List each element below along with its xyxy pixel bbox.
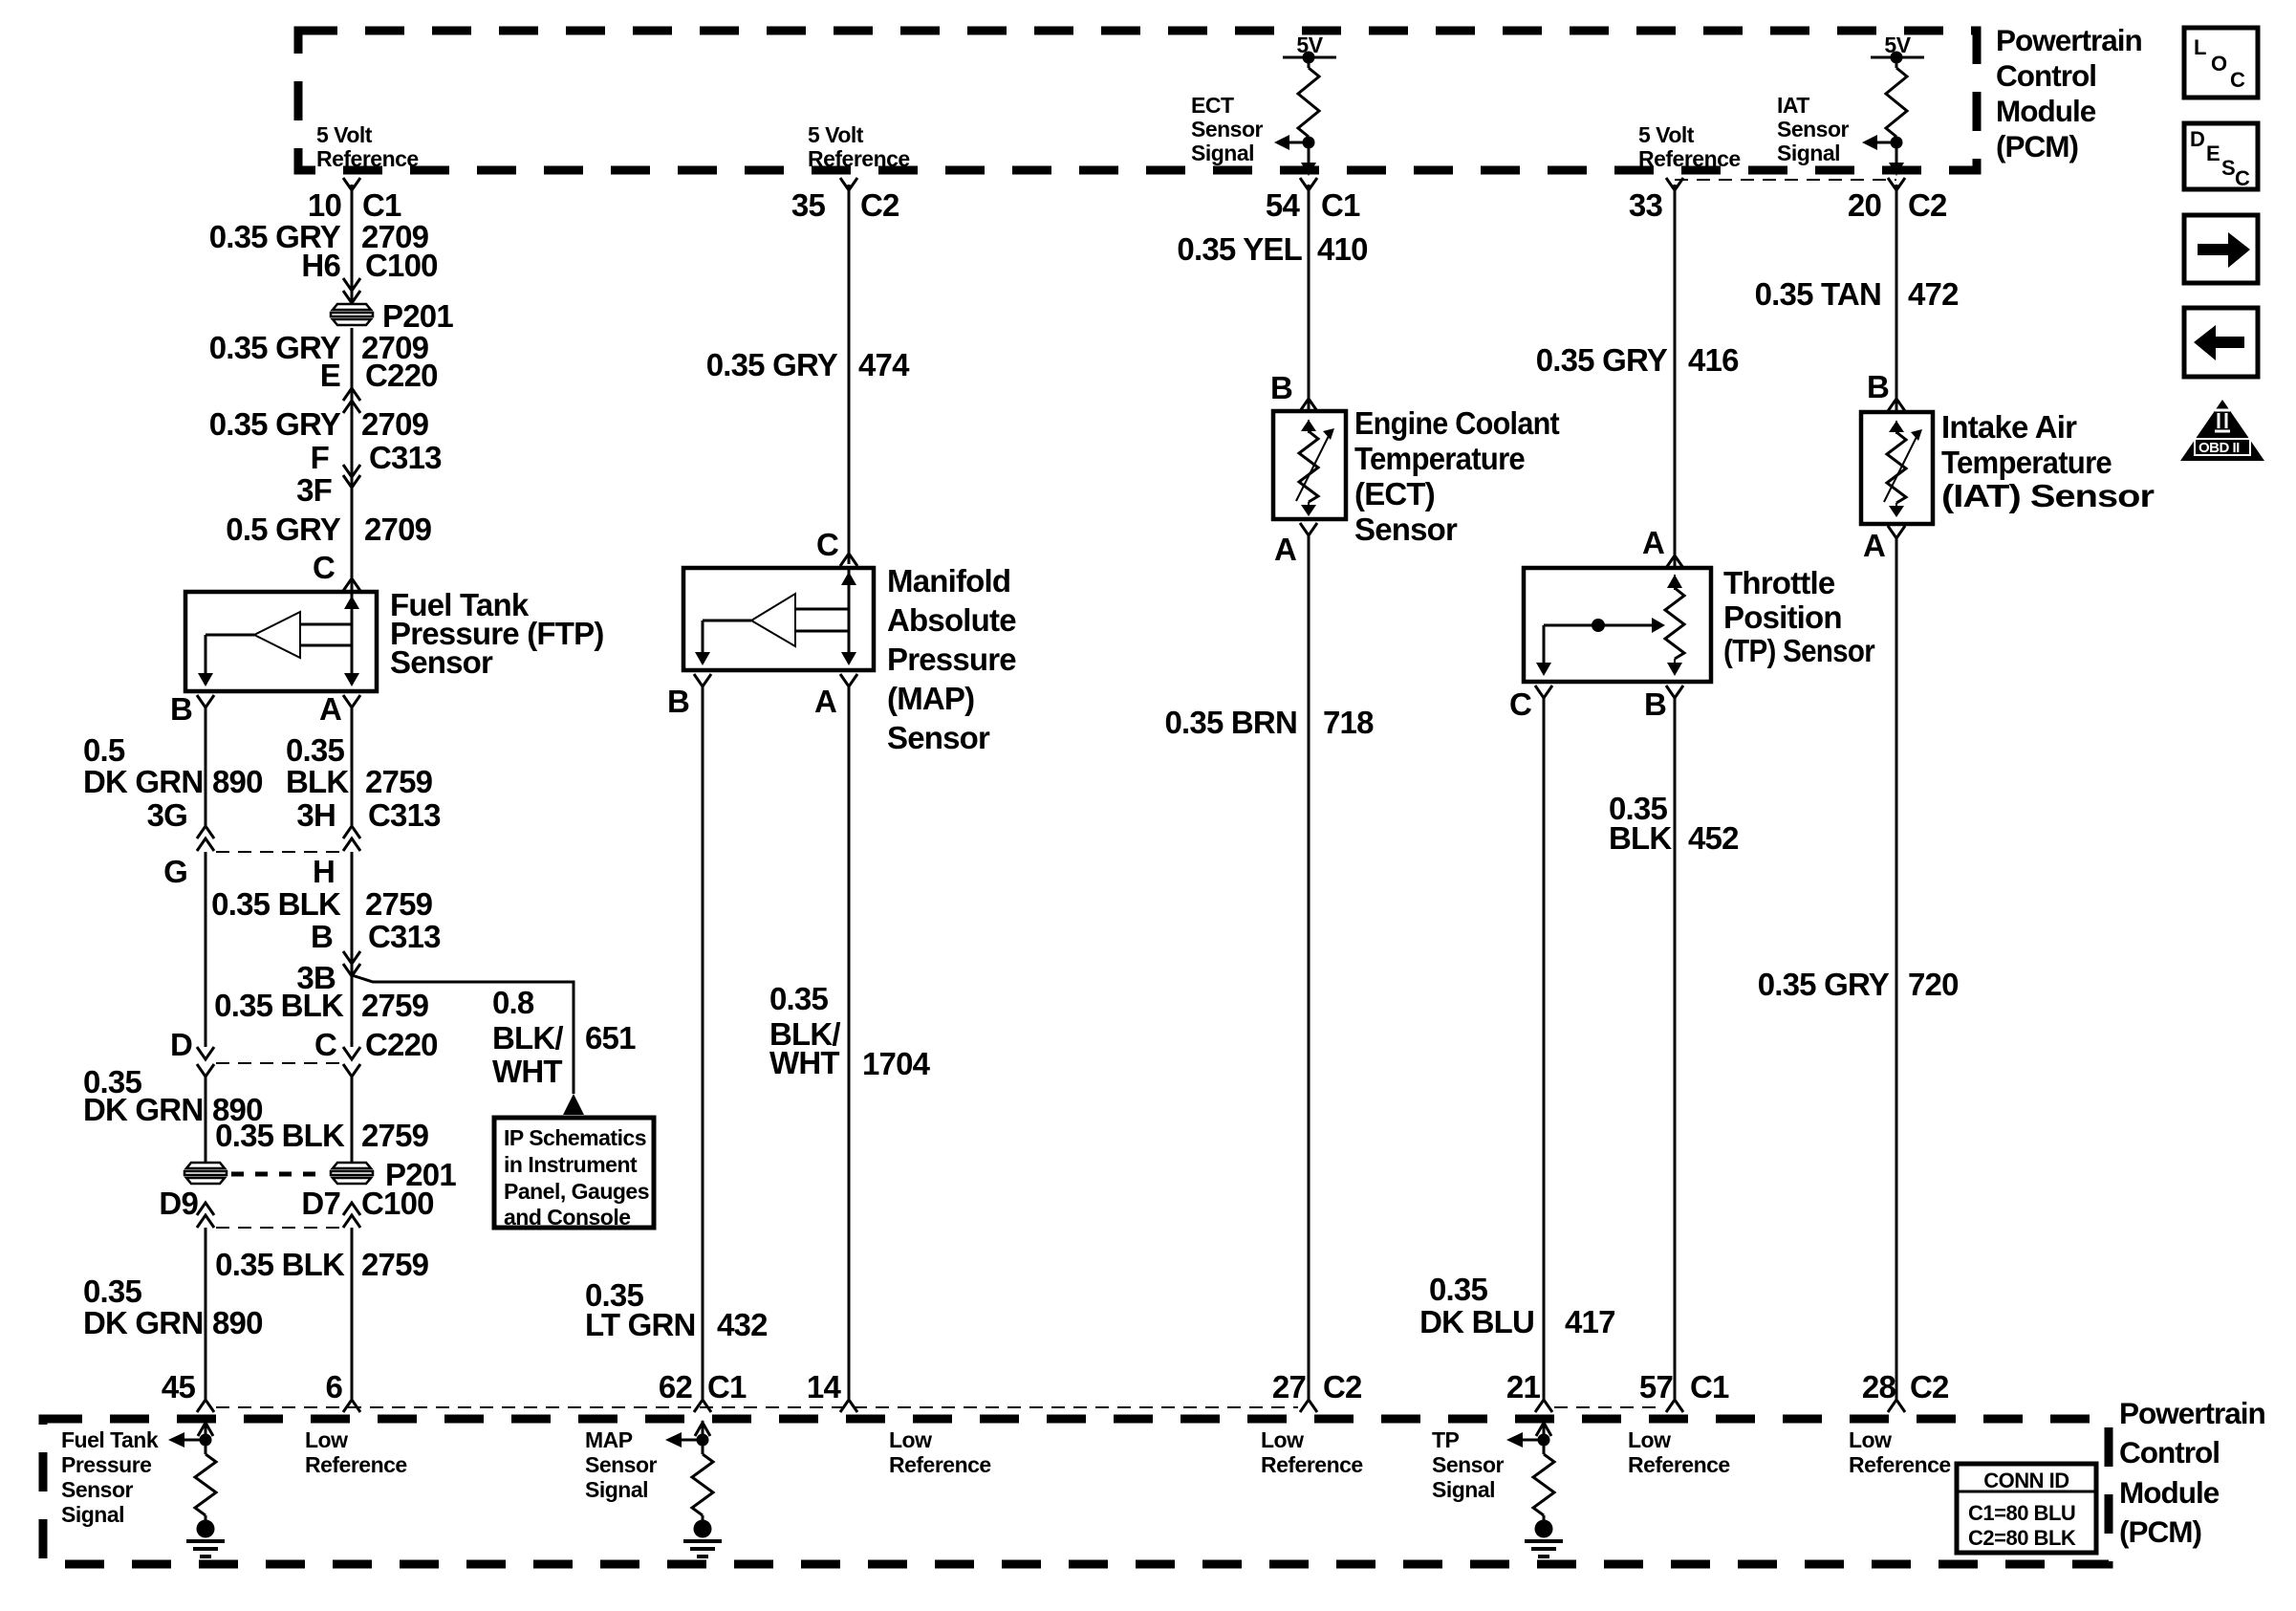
label: 0.35 LT GRN 432: [585, 1277, 768, 1342]
potentiometer symbol inside TP sensor: [1665, 575, 1684, 676]
label: G / H: [163, 854, 335, 889]
svg-text:2709: 2709: [361, 406, 429, 442]
wire: MAP A 0.35 BLK/WHT 1704 to PCM pin 14: [848, 686, 851, 1401]
reference box: IP Schematics in Instrument Panel, Gauges and Console: [494, 1118, 654, 1230]
svg-text:C1: C1: [1690, 1369, 1729, 1404]
label: 0.35 GRY / 720: [1758, 967, 1959, 1002]
label: MAP Sensor Signal: [585, 1427, 658, 1502]
connector P201 (lower, on B wire): [184, 1163, 227, 1184]
svg-text:Module: Module: [1996, 94, 2096, 128]
ground: TP signal termination: [1525, 1520, 1563, 1557]
svg-text:C1=80 BLU: C1=80 BLU: [1968, 1501, 2075, 1525]
svg-text:3F: 3F: [296, 472, 332, 508]
PCM input: MAP Sensor Signal termination: [665, 1421, 713, 1522]
svg-text:Reference: Reference: [1628, 1452, 1730, 1477]
label: B / C313: [311, 919, 441, 954]
label: Intake Air Temperature (IAT) Sensor: [1941, 409, 2155, 513]
connector chevron at TP pin A: [1666, 555, 1683, 568]
icon: OBD II triangle: [2180, 400, 2264, 461]
svg-text:5 Volt: 5 Volt: [808, 122, 864, 147]
svg-text:C2: C2: [1323, 1369, 1362, 1404]
connector chevrons C313 on both wires: [197, 826, 360, 851]
svg-text:C2=80 BLK: C2=80 BLK: [1968, 1526, 2076, 1550]
internal wire with down arrow to pin B: [695, 620, 710, 665]
label: Throttle Position (TP) Sensor: [1723, 565, 1875, 668]
icon: forward arrow box: [2184, 215, 2258, 283]
svg-text:Pressure: Pressure: [61, 1452, 151, 1477]
label: 0.35 DK BLU 417: [1419, 1272, 1615, 1339]
connector chevrons at 3B splice: [343, 951, 360, 976]
label: 0.35 BLK / 452: [1609, 791, 1739, 856]
svg-text:0.5: 0.5: [83, 732, 125, 768]
svg-text:C1: C1: [707, 1369, 747, 1404]
branch wire: 0.8 BLK/WHT 651 from 3B splice to IP schematics: [352, 975, 584, 1115]
svg-text:0.5 GRY: 0.5 GRY: [226, 512, 341, 547]
ECT sensor box: [1273, 411, 1346, 519]
svg-text:0.35 GRY: 0.35 GRY: [209, 406, 341, 442]
svg-text:C: C: [816, 527, 838, 562]
svg-text:890: 890: [212, 764, 263, 799]
connector chevron: PCM pin 33: [1666, 178, 1683, 190]
svg-text:Absolute: Absolute: [887, 602, 1016, 638]
label: Engine Coolant Temperature (ECT) Sensor: [1354, 405, 1560, 547]
svg-text:Throttle: Throttle: [1723, 565, 1835, 600]
svg-text:Temperature: Temperature: [1941, 445, 2112, 480]
svg-text:Reference: Reference: [889, 1452, 991, 1477]
svg-text:(PCM): (PCM): [2119, 1514, 2201, 1549]
svg-text:DK GRN: DK GRN: [83, 1092, 203, 1127]
svg-text:45: 45: [162, 1369, 196, 1404]
svg-text:Temperature: Temperature: [1354, 441, 1525, 476]
pin A label and chevron: [814, 674, 857, 719]
svg-text:10: 10: [308, 187, 341, 223]
svg-text:S: S: [2221, 156, 2235, 180]
label: 0.8 BLK/ WHT 651: [492, 985, 636, 1089]
svg-text:and Console: and Console: [504, 1205, 631, 1230]
wire: 0.35 YEL 410 from PCM pin 54 C1 to ECT sensor B: [1308, 185, 1310, 409]
svg-text:WHT: WHT: [492, 1054, 562, 1089]
svg-text:Reference: Reference: [1261, 1452, 1363, 1477]
svg-text:DK GRN: DK GRN: [83, 764, 203, 799]
svg-text:(PCM): (PCM): [1996, 129, 2078, 163]
svg-text:2759: 2759: [361, 1118, 429, 1153]
label: 0.35 BLK / 2759 (bottom): [215, 1247, 428, 1282]
svg-text:C2: C2: [1908, 187, 1947, 223]
svg-text:B: B: [170, 691, 192, 727]
svg-text:(IAT) Sensor: (IAT) Sensor: [1941, 478, 2155, 513]
connector chevrons C100 on both wires: [197, 1203, 360, 1228]
svg-text:20: 20: [1848, 187, 1881, 223]
svg-text:Sensor: Sensor: [887, 720, 990, 755]
svg-text:Reference: Reference: [305, 1452, 407, 1477]
dashed link C100: [216, 1227, 341, 1229]
PCM input: TP Sensor Signal termination: [1506, 1421, 1554, 1522]
label: 0.35 GRY / 2709: [209, 219, 429, 254]
svg-text:F: F: [311, 440, 329, 475]
wire: FTP A 0.35 BLK 2759 down to C313: [351, 708, 354, 826]
label: Low Reference (pin 14): [889, 1427, 991, 1477]
pin A label and chevron: [319, 691, 360, 727]
label: 3G / 3H / C313: [147, 797, 442, 833]
svg-text:2759: 2759: [365, 886, 433, 922]
connector chevron: PCM pin 20: [1888, 178, 1905, 190]
svg-text:(TP) Sensor: (TP) Sensor: [1723, 633, 1875, 668]
svg-text:C313: C313: [368, 919, 441, 954]
svg-text:Manifold: Manifold: [887, 563, 1010, 599]
svg-text:TP: TP: [1432, 1427, 1460, 1452]
svg-text:C100: C100: [365, 248, 438, 283]
label: H6 / C100: [301, 248, 437, 283]
svg-text:0.35 TAN: 0.35 TAN: [1755, 276, 1881, 312]
label: 5 Volt Reference (TP output): [1638, 122, 1741, 171]
wire: A continues below C313: [351, 852, 354, 1047]
CONN ID table: [1957, 1464, 2096, 1553]
svg-text:E: E: [320, 358, 340, 393]
wire: MAP B 0.35 LT GRN 432 to PCM pin 62: [702, 686, 704, 1401]
svg-text:B: B: [311, 919, 333, 954]
svg-text:0.35 BLK: 0.35 BLK: [214, 988, 344, 1023]
connector chevron at MAP pin C: [840, 554, 857, 566]
dashed link P201: [231, 1172, 326, 1177]
svg-text:Low: Low: [1261, 1427, 1304, 1452]
icon: LOC box: [2184, 28, 2258, 98]
resistor: IAT pull-up inside PCM: [1886, 57, 1907, 168]
label: Powertrain Control Module (PCM) top: [1996, 23, 2142, 163]
label: Manifold Absolute Pressure (MAP) Sensor: [887, 563, 1016, 755]
label: Low Reference (pin 27): [1261, 1427, 1363, 1477]
svg-text:A: A: [319, 691, 341, 727]
svg-text:Module: Module: [2119, 1475, 2220, 1510]
connector chevrons: C220 pass-through: [343, 388, 360, 413]
label: 5 Volt Reference (FTP output): [316, 122, 419, 171]
svg-text:416: 416: [1688, 342, 1739, 378]
internal wire with up arrow to pin C: [344, 594, 359, 645]
PCM input: Fuel Tank Pressure Sensor Signal termination: [168, 1421, 216, 1522]
svg-text:0.8: 0.8: [492, 985, 534, 1020]
svg-text:6: 6: [325, 1369, 342, 1404]
svg-text:62: 62: [659, 1369, 693, 1404]
wire: ECT A 0.35 BRN 718 to PCM pin 27: [1308, 535, 1310, 1401]
label: 0.5 DK GRN 890: [83, 732, 263, 799]
svg-text:2759: 2759: [361, 1247, 429, 1282]
svg-text:D: D: [2190, 127, 2204, 151]
label: IAT Sensor Signal (PCM internal): [1777, 93, 1850, 165]
wire: 0.35 GRY 416 from PCM pin 33 to TP sensor A: [1674, 185, 1677, 566]
resistor: ECT pull-up inside PCM: [1298, 57, 1319, 168]
svg-text:Reference: Reference: [316, 146, 419, 171]
svg-text:E: E: [2206, 142, 2220, 165]
wire: B continues below C220: [205, 1077, 207, 1163]
svg-text:C313: C313: [369, 440, 442, 475]
svg-text:651: 651: [585, 1020, 636, 1056]
pin B label and chevron: [667, 674, 711, 719]
svg-text:ECT: ECT: [1191, 93, 1234, 118]
op-amp symbol inside MAP sensor: [703, 594, 849, 646]
svg-text:Reference: Reference: [1638, 146, 1741, 171]
label: Low Reference (pin 6): [305, 1427, 407, 1477]
TP sensor box: [1524, 568, 1711, 682]
label: 5 Volt Reference (MAP output): [808, 122, 910, 171]
connector chevrons: C313 pass-through: [343, 465, 360, 488]
pin A label and chevron: [1274, 523, 1317, 567]
svg-text:C1: C1: [1321, 187, 1360, 223]
icon: back arrow box: [2184, 308, 2258, 377]
wire: B continues below C313: [205, 852, 207, 1047]
pin 6 label and chevron: [325, 1369, 360, 1412]
svg-text:C100: C100: [361, 1186, 434, 1221]
pin 35 / connector C2 labels: [791, 187, 899, 223]
svg-text:Signal: Signal: [585, 1477, 648, 1502]
svg-text:H6: H6: [301, 248, 340, 283]
svg-text:452: 452: [1688, 820, 1739, 856]
svg-text:1704: 1704: [862, 1046, 931, 1081]
label: 0.35 TAN / 472: [1755, 276, 1959, 312]
svg-text:CONN ID: CONN ID: [1983, 1469, 2069, 1492]
connector chevron at FTP pin C: [343, 578, 360, 591]
svg-text:Powertrain: Powertrain: [2119, 1396, 2265, 1430]
svg-text:3H: 3H: [296, 797, 336, 833]
svg-text:A: A: [1642, 525, 1664, 560]
svg-text:C2: C2: [860, 187, 899, 223]
svg-text:in Instrument: in Instrument: [504, 1152, 638, 1177]
connector chevron: PCM pin 35: [840, 178, 857, 190]
internal wire with down arrow to pin A: [841, 631, 856, 665]
svg-text:MAP: MAP: [585, 1427, 633, 1452]
svg-text:2759: 2759: [365, 764, 433, 799]
svg-text:0.35: 0.35: [769, 981, 828, 1016]
svg-text:IAT: IAT: [1777, 93, 1809, 118]
svg-text:BLK: BLK: [1609, 820, 1672, 856]
label: D / C / C220: [170, 1027, 438, 1062]
svg-text:C: C: [2235, 166, 2250, 190]
IAT sensor box: [1861, 412, 1933, 524]
internal wire with down arrow to pin A: [344, 645, 359, 686]
label: Fuel Tank Pressure Sensor Signal: [61, 1427, 159, 1527]
svg-text:Panel, Gauges: Panel, Gauges: [504, 1179, 649, 1204]
connector P201 (in-line): [331, 298, 453, 334]
svg-text:Control: Control: [1996, 58, 2096, 93]
pin A label and chevron: [1863, 526, 1905, 563]
svg-text:Position: Position: [1723, 599, 1842, 635]
internal wire with down arrow to pin B: [198, 635, 213, 686]
svg-text:Low: Low: [305, 1427, 348, 1452]
pin B label and chevron: [170, 691, 214, 727]
svg-text:C: C: [1509, 686, 1531, 722]
wire: FTP B 0.5 DK GRN 890 down to C313: [205, 708, 207, 826]
icon: DESC box: [2184, 123, 2258, 190]
connector chevron: PCM pin 10: [343, 178, 360, 190]
svg-text:A: A: [1863, 528, 1885, 563]
svg-text:Reference: Reference: [808, 146, 910, 171]
wire: A continues below C220: [351, 1077, 354, 1163]
svg-text:A: A: [814, 684, 836, 719]
svg-text:Signal: Signal: [61, 1502, 124, 1527]
connector P201 (lower, on A wire): [331, 1163, 373, 1184]
5V supply node (ECT pull-up): [1283, 33, 1336, 64]
svg-text:O: O: [2211, 52, 2227, 76]
svg-text:720: 720: [1908, 967, 1959, 1002]
svg-text:C: C: [2230, 68, 2245, 92]
label: Fuel Tank Pressure (FTP) Sensor: [390, 587, 604, 680]
pin 28 / C2 labels and chevron: [1862, 1369, 1949, 1412]
node: ECT signal junction with left arrow: [1274, 135, 1316, 176]
svg-text:5 Volt: 5 Volt: [316, 122, 373, 147]
svg-text:2759: 2759: [361, 988, 429, 1023]
thin dashed connector line above bottom box (pins 21..57): [1554, 1406, 1664, 1408]
svg-text:Sensor: Sensor: [61, 1477, 134, 1502]
pin 27 / C2 labels and chevron: [1272, 1369, 1362, 1412]
thermistor symbol inside ECT sensor: [1296, 420, 1334, 516]
pin 21 label and chevron: [1506, 1369, 1552, 1412]
svg-text:C: C: [313, 550, 335, 585]
svg-text:Signal: Signal: [1777, 141, 1840, 165]
svg-text:Low: Low: [889, 1427, 932, 1452]
wire: 0.35 GRY 2709 from P201 to C220: [351, 328, 354, 590]
wire: IAT A 0.35 GRY 720 to PCM pin 28: [1895, 538, 1898, 1401]
svg-text:Sensor: Sensor: [1432, 1452, 1505, 1477]
label: 0.35 GRY / 2709: [209, 330, 429, 365]
svg-text:474: 474: [858, 347, 910, 382]
label: TP Sensor Signal: [1432, 1427, 1505, 1502]
label: 0.35 BLK / 2759 (lower): [215, 1118, 428, 1153]
svg-text:Fuel Tank: Fuel Tank: [61, 1427, 159, 1452]
svg-text:(ECT): (ECT): [1354, 476, 1435, 512]
label: 0.35 YEL / 410: [1177, 231, 1367, 267]
svg-text:28: 28: [1862, 1369, 1896, 1404]
svg-text:5 Volt: 5 Volt: [1638, 122, 1695, 147]
svg-text:54: 54: [1266, 187, 1301, 223]
pin 57 / C1 labels and chevron: [1639, 1369, 1729, 1412]
label: D9 / D7 / C100: [159, 1186, 433, 1221]
label: 0.35 BLK / 2759: [211, 886, 432, 922]
svg-text:0.35 BLK: 0.35 BLK: [211, 886, 341, 922]
svg-text:Pressure: Pressure: [887, 642, 1016, 677]
svg-text:P201: P201: [382, 298, 453, 334]
svg-text:27: 27: [1272, 1369, 1306, 1404]
svg-text:410: 410: [1317, 231, 1368, 267]
connector chevron at IAT pin B: [1888, 399, 1905, 411]
MAP sensor box: [683, 568, 874, 670]
internal wire with up arrow to pin C: [841, 570, 856, 631]
potentiometer wiper arm with junction dot: [1536, 618, 1665, 676]
label: 0.35 BRN / 718: [1165, 705, 1375, 740]
label: F / C313: [311, 440, 442, 475]
ground: FTP signal termination: [186, 1520, 225, 1557]
label: 0.35 GRY / 416: [1536, 342, 1739, 378]
thin dashed connector line above bottom box (pins 45..27): [216, 1406, 1298, 1408]
svg-text:21: 21: [1506, 1369, 1541, 1404]
connector chevrons C220 on both wires: [197, 1047, 360, 1077]
svg-text:H: H: [313, 854, 335, 889]
svg-text:2709: 2709: [364, 512, 432, 547]
svg-text:A: A: [1274, 532, 1296, 567]
svg-text:890: 890: [212, 1305, 263, 1340]
5V supply node (IAT pull-up): [1871, 33, 1924, 64]
label: ECT Sensor Signal (PCM internal): [1191, 93, 1264, 165]
label: Low Reference (pin 28): [1849, 1427, 1951, 1477]
Powertrain Control Module (PCM) bottom dashed box: [43, 1419, 2109, 1564]
svg-text:C313: C313: [368, 797, 441, 833]
svg-text:Control: Control: [2119, 1435, 2220, 1469]
pin 14 label and chevron: [807, 1369, 857, 1412]
label: Powertrain Control Module (PCM) bottom: [2119, 1396, 2265, 1549]
op-amp symbol inside FTP sensor: [206, 612, 352, 658]
label: 0.5 GRY / 2709: [226, 512, 431, 547]
svg-text:3G: 3G: [147, 797, 187, 833]
svg-text:C220: C220: [365, 358, 438, 393]
svg-text:Sensor: Sensor: [585, 1452, 658, 1477]
svg-text:B: B: [1867, 369, 1889, 404]
wire: A from C100 to PCM pin 6: [351, 1228, 354, 1401]
svg-text:472: 472: [1908, 276, 1959, 312]
pin B label and chevron: [1644, 686, 1683, 722]
svg-text:0.35: 0.35: [83, 1274, 141, 1309]
svg-text:Low: Low: [1849, 1427, 1892, 1452]
label: E / C220: [320, 358, 438, 393]
svg-text:0.35: 0.35: [1429, 1272, 1487, 1307]
pin 62 / C1 labels and chevron: [659, 1369, 747, 1412]
connector chevrons: C100 pass-through: [343, 278, 360, 303]
svg-text:BLK/: BLK/: [492, 1020, 563, 1056]
svg-text:0.35 YEL: 0.35 YEL: [1177, 231, 1302, 267]
svg-text:Reference: Reference: [1849, 1452, 1951, 1477]
wire: 0.35 GRY 2709 from PCM pin 10 C1 to P201: [351, 185, 354, 303]
svg-text:OBD II: OBD II: [2199, 440, 2240, 456]
svg-text:0.35 BRN: 0.35 BRN: [1165, 705, 1298, 740]
svg-text:D: D: [170, 1027, 192, 1062]
svg-text:0.35 GRY: 0.35 GRY: [1536, 342, 1668, 378]
svg-text:0.35 GRY: 0.35 GRY: [1758, 967, 1890, 1002]
label: 0.35 DK GRN 890 (bottom): [83, 1274, 263, 1340]
svg-text:Sensor: Sensor: [390, 644, 493, 680]
svg-text:B: B: [1270, 370, 1292, 405]
svg-text:14: 14: [807, 1369, 842, 1404]
svg-text:C2: C2: [1910, 1369, 1949, 1404]
svg-text:35: 35: [791, 187, 826, 223]
svg-text:Low: Low: [1628, 1427, 1671, 1452]
wire: 0.35 TAN 472 from PCM pin 20 C2 to IAT sensor B: [1895, 185, 1898, 410]
Powertrain Control Module (PCM) top dashed box: [298, 31, 1977, 170]
thin dashed internal border segment between TP and IAT columns: [1675, 179, 1896, 181]
svg-text:D9: D9: [159, 1186, 198, 1221]
dashed link C220: [216, 1062, 341, 1064]
pin 45 label and chevron: [162, 1369, 214, 1412]
pin 54 / connector C1 labels: [1266, 187, 1360, 223]
label: 0.35 BLK 2759: [286, 732, 433, 799]
thermistor symbol inside IAT sensor: [1884, 421, 1922, 517]
svg-text:C: C: [314, 1027, 336, 1062]
label: 0.35 BLK/ WHT 1704: [769, 981, 931, 1081]
svg-text:Signal: Signal: [1432, 1477, 1495, 1502]
pin C label and chevron: [1509, 686, 1552, 722]
label: Low Reference (pin 57): [1628, 1427, 1730, 1477]
svg-text:718: 718: [1323, 705, 1374, 740]
svg-text:0.35 GRY: 0.35 GRY: [706, 347, 838, 382]
label: 0.35 GRY / 474: [706, 347, 910, 382]
wire: B from C100 to PCM pin 45: [205, 1228, 207, 1401]
svg-text:LT GRN: LT GRN: [585, 1307, 696, 1342]
svg-text:IP Schematics: IP Schematics: [504, 1125, 646, 1150]
svg-text:(MAP): (MAP): [887, 681, 974, 716]
svg-text:G: G: [163, 854, 187, 889]
svg-text:B: B: [667, 684, 689, 719]
svg-text:Sensor: Sensor: [1777, 117, 1850, 142]
connector chevron: PCM pin 54: [1300, 178, 1317, 190]
svg-text:L: L: [2194, 35, 2206, 59]
label: 0.35 BLK / 2759 (middle): [214, 988, 428, 1023]
svg-text:BLK: BLK: [286, 764, 349, 799]
FTP sensor box: [185, 592, 377, 691]
